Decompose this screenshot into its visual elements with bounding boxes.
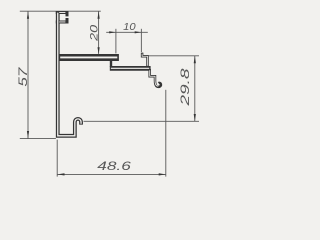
svg-text:48.6: 48.6 (97, 161, 131, 173)
svg-text:57: 57 (18, 67, 30, 87)
svg-text:29.8: 29.8 (178, 68, 192, 107)
svg-text:10: 10 (123, 21, 136, 33)
svg-text:20: 20 (88, 24, 100, 42)
